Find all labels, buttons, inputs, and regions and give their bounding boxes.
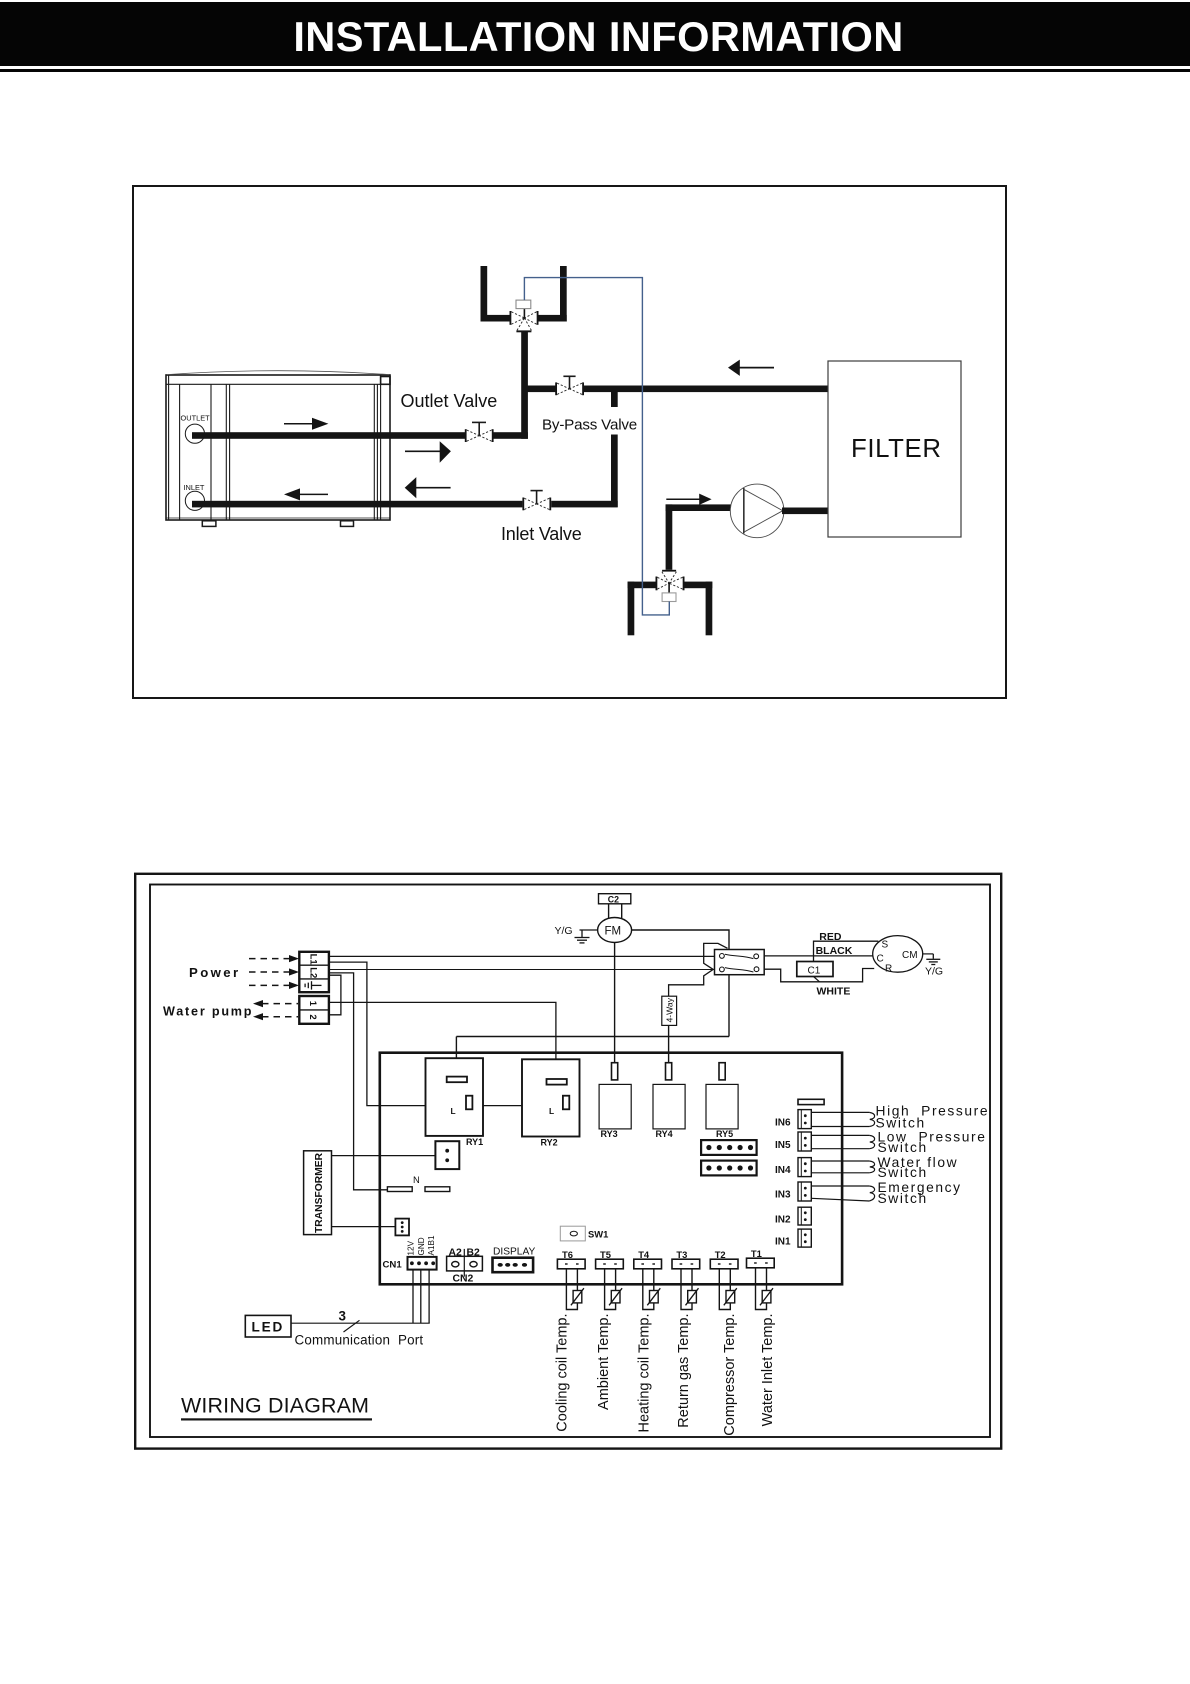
T2 sensor loop wires	[719, 1269, 730, 1310]
svg-text:12V: 12V	[407, 1240, 416, 1255]
RY1 L pin bar	[466, 1096, 472, 1110]
thermistor RT2	[724, 1288, 737, 1305]
svg-text:SW1: SW1	[588, 1228, 608, 1239]
svg-text:C1: C1	[808, 965, 821, 976]
svg-text:CN2: CN2	[453, 1273, 474, 1284]
inlet pipe	[192, 501, 523, 508]
wire L2 to contactor	[329, 969, 715, 971]
svg-text:2: 2	[307, 1014, 318, 1019]
INLET port circle	[185, 491, 204, 510]
svg-text:RED: RED	[819, 931, 842, 943]
top U pipe bottom right arm	[538, 315, 567, 322]
input pin strip	[798, 1099, 824, 1104]
earth terminal symbol	[305, 981, 321, 989]
T6 sensor loop wires	[566, 1269, 577, 1310]
pin header strip A below RY5	[701, 1140, 757, 1155]
diagram 1 border frame	[133, 186, 1006, 698]
svg-text:LED: LED	[252, 1320, 285, 1335]
heat pump unit feet	[202, 521, 353, 527]
svg-text:BLACK: BLACK	[816, 945, 853, 957]
wire L1 to contactor	[329, 955, 715, 957]
IN6 wires to switch	[811, 1112, 874, 1126]
svg-text:CN1: CN1	[383, 1259, 403, 1270]
T4 sensor loop wires	[643, 1269, 654, 1310]
svg-text:WIRING DIAGRAM: WIRING DIAGRAM	[181, 1394, 369, 1418]
contactor terminals	[720, 954, 759, 972]
T3 connector	[672, 1259, 700, 1269]
IN1 connector	[798, 1229, 811, 1247]
IN6 connector	[798, 1110, 811, 1129]
svg-text:Outlet Valve: Outlet Valve	[401, 391, 498, 411]
wire FM right to contactor top	[632, 930, 729, 950]
RED wire	[814, 941, 879, 961]
svg-text:S: S	[882, 940, 889, 951]
svg-text:Heating coil Temp.: Heating coil Temp.	[637, 1314, 653, 1433]
outlet pipe horizontal	[192, 432, 466, 439]
svg-text:IN6: IN6	[775, 1117, 791, 1128]
relay RY3 box	[599, 1084, 631, 1129]
wire transformer to 3pin connector	[332, 1226, 396, 1228]
header title	[0, 13, 1190, 61]
T1 connector	[747, 1258, 775, 1268]
wire contactor bottom to relay bus	[728, 975, 730, 1037]
wiring inner frame	[150, 885, 990, 1438]
BLACK wire	[764, 955, 873, 957]
svg-text:1: 1	[307, 1001, 318, 1007]
svg-text:FILTER: FILTER	[851, 435, 942, 463]
top U pipe left leg	[481, 266, 488, 322]
svg-text:IN1: IN1	[775, 1237, 791, 1248]
water pump dashed arrow 1	[253, 1000, 298, 1007]
IN5 wires to switch	[811, 1135, 874, 1148]
power dashed arrow L1	[249, 955, 299, 962]
svg-text:3: 3	[339, 1309, 346, 1324]
svg-text:Switch: Switch	[878, 1165, 928, 1180]
T3 sensor loop wires	[681, 1269, 692, 1310]
svg-text:L1: L1	[308, 954, 319, 966]
OUTLET port circle	[185, 424, 204, 443]
relay RY4 box	[653, 1084, 685, 1129]
relay RY1 box	[426, 1058, 484, 1136]
FILTER box	[828, 361, 961, 537]
svg-text:Inlet Valve: Inlet Valve	[501, 524, 582, 544]
outlet riser pipe	[521, 332, 528, 439]
wiring diagram	[134, 872, 1003, 1450]
T5 connector	[596, 1259, 624, 1269]
top U pipe right leg	[560, 266, 567, 322]
by-pass pipe right	[583, 386, 828, 393]
bottom bridge left leg	[628, 582, 635, 636]
thermistor RT3	[686, 1288, 699, 1305]
svg-text:TRANSFORMER: TRANSFORMER	[314, 1152, 325, 1233]
jumper wire to terminal 2	[329, 975, 341, 1015]
CN1 wire 2	[420, 1270, 422, 1324]
bypass-to-inlet drop pipe lower run	[611, 435, 618, 508]
water pump dashed arrow 2	[253, 1013, 298, 1020]
outlet pipe after valve	[492, 432, 528, 439]
N bar left	[387, 1187, 412, 1192]
svg-text:Cooling coil Temp.: Cooling coil Temp.	[555, 1314, 571, 1432]
capacitor C2 box	[599, 894, 631, 904]
svg-text:R: R	[885, 964, 892, 975]
IN3 connector	[798, 1182, 811, 1201]
RY1 coil pad	[447, 1077, 467, 1083]
svg-text:Switch: Switch	[876, 1116, 926, 1131]
svg-text:Communication Port: Communication Port	[295, 1333, 424, 1348]
wire FM bottom to RY3 pin	[614, 943, 616, 1063]
IN2 connector	[798, 1207, 811, 1225]
thermistor RT6	[571, 1288, 584, 1305]
svg-text:RY2: RY2	[541, 1137, 558, 1147]
N bar right	[425, 1187, 450, 1192]
title underline	[181, 1418, 372, 1420]
contactor contact blades	[725, 954, 754, 972]
IN4 wires to switch	[811, 1161, 874, 1173]
svg-text:By-Pass Valve: By-Pass Valve	[542, 417, 637, 434]
relay RY2 box	[522, 1059, 580, 1136]
IN5 connector	[798, 1132, 811, 1151]
switch SW1	[560, 1226, 585, 1241]
outlet valve V1	[465, 422, 494, 442]
svg-text:RY3: RY3	[601, 1129, 618, 1139]
fan motor FM	[598, 918, 632, 943]
header black bar	[0, 2, 1190, 66]
transformer box	[304, 1151, 332, 1235]
CN2 connector	[447, 1249, 483, 1277]
by-pass valve V2	[555, 376, 584, 395]
wire L1 branch to relay L pins	[329, 962, 563, 1106]
compressor motor CM	[873, 936, 923, 973]
flow arrow after outlet valve	[405, 441, 451, 463]
water pump P1	[730, 484, 784, 538]
pump discharge pipe	[782, 508, 828, 515]
RY5 pin	[719, 1063, 725, 1080]
thermistor RT5	[609, 1288, 622, 1305]
T1 sensor loop wires	[756, 1268, 767, 1310]
relay bus horizontal wire	[456, 1036, 729, 1038]
bottom bridge pipe right arm	[684, 582, 713, 589]
capillary blue control line	[524, 278, 669, 615]
svg-text:RY5: RY5	[716, 1129, 733, 1139]
wire terminal 1 to RY2	[329, 1002, 556, 1079]
bottom bridge right leg	[706, 582, 713, 636]
CN1 wire 1	[412, 1270, 414, 1324]
CN1 connector	[408, 1257, 437, 1270]
svg-text:OUTLET: OUTLET	[181, 414, 211, 423]
svg-text:Ambient Temp.: Ambient Temp.	[596, 1314, 612, 1410]
4-Way valve coil box	[662, 996, 677, 1025]
thermistor RT1	[760, 1288, 773, 1305]
svg-text:N: N	[413, 1174, 420, 1185]
svg-text:Compressor Temp.: Compressor Temp.	[722, 1314, 738, 1436]
WHITE wire	[764, 969, 874, 982]
svg-text:Y/G: Y/G	[555, 925, 573, 937]
wire relay bus to RY1	[455, 1037, 457, 1078]
flow arrow unit bottom	[284, 488, 328, 500]
capacitor C1 box	[797, 962, 833, 977]
svg-text:L2: L2	[308, 967, 319, 978]
T5 sensor loop wires	[605, 1269, 616, 1310]
CN1 wire 3	[428, 1270, 430, 1324]
svg-text:FM: FM	[605, 926, 622, 938]
svg-text:Y/G: Y/G	[925, 966, 943, 978]
power terminal block L1 L2 earth	[299, 952, 329, 992]
contactor KM box	[715, 950, 765, 975]
wiring outer frame	[135, 874, 1001, 1449]
IN4 connector	[798, 1158, 811, 1177]
wire CM to ground	[923, 953, 934, 955]
DISPLAY connector	[493, 1258, 534, 1273]
ground symbol at FM	[575, 930, 590, 943]
thermistor RT4	[647, 1288, 660, 1305]
svg-text:IN4: IN4	[775, 1165, 791, 1176]
3-way valve top V3	[510, 300, 539, 332]
svg-text:RY4: RY4	[656, 1129, 673, 1139]
svg-text:Return gas Temp.: Return gas Temp.	[676, 1314, 692, 1428]
wire C2 to FM right lead	[621, 904, 623, 920]
svg-text:Water pump: Water pump	[163, 1004, 253, 1018]
main PCB board box	[380, 1053, 842, 1285]
flow arrow pump suction	[666, 494, 711, 505]
inlet pipe right segment	[551, 501, 618, 508]
RY2 coil pad	[547, 1079, 567, 1085]
svg-text:GND: GND	[417, 1237, 426, 1255]
bypass-to-inlet drop pipe upper stub	[611, 390, 618, 407]
RY4 pin	[666, 1063, 672, 1080]
top U pipe bottom left arm	[481, 315, 511, 322]
svg-text:RY1: RY1	[466, 1137, 483, 1147]
water pump terminal block 1 2	[299, 996, 329, 1024]
svg-text:IN2: IN2	[775, 1215, 791, 1226]
svg-text:INLET: INLET	[184, 483, 205, 492]
wire transformer to 2pin connector	[332, 1155, 436, 1157]
C1 bottom lead	[814, 977, 820, 982]
3-way valve bottom V5	[656, 570, 685, 602]
flow arrow bypass to filter	[728, 360, 774, 376]
RY3 pin	[612, 1063, 618, 1080]
svg-text:Water Inlet Temp.: Water Inlet Temp.	[760, 1314, 776, 1427]
pump suction pipe horizontal	[666, 504, 732, 511]
svg-text:DISPLAY: DISPLAY	[493, 1247, 535, 1258]
header underline rule	[0, 69, 1190, 72]
power dashed arrow L2	[249, 968, 299, 975]
LED communication wire	[291, 1322, 430, 1324]
svg-text:C: C	[877, 954, 884, 965]
pump suction pipe riser	[666, 504, 673, 569]
3-wire slash mark	[344, 1320, 360, 1332]
svg-text:L: L	[451, 1106, 456, 1116]
svg-text:C2: C2	[608, 894, 619, 904]
LED box	[245, 1315, 291, 1337]
flow arrow before inlet valve	[405, 477, 451, 498]
svg-text:A1B1: A1B1	[427, 1235, 436, 1255]
inlet valve V4	[522, 491, 551, 511]
T2 connector	[710, 1259, 738, 1269]
2-pin connector J1	[435, 1141, 459, 1169]
power dashed arrow earth	[249, 982, 299, 989]
svg-text:WHITE: WHITE	[817, 986, 851, 998]
svg-text:Power: Power	[189, 965, 241, 980]
svg-text:CM: CM	[902, 950, 918, 961]
svg-text:IN3: IN3	[775, 1190, 791, 1201]
T6 connector	[557, 1259, 585, 1269]
svg-text:Switch: Switch	[878, 1140, 928, 1155]
wire 4-Way to RY4 pin	[668, 1025, 670, 1062]
wire Y/G to FM	[580, 929, 598, 931]
svg-text:L: L	[549, 1106, 554, 1116]
bottom bridge pipe left arm	[628, 582, 657, 589]
RY2 L pin bar	[563, 1096, 569, 1110]
pin header strip B below RY5	[701, 1161, 757, 1176]
piping diagram	[132, 185, 1007, 699]
svg-text:4-Way: 4-Way	[665, 997, 675, 1022]
T4 connector	[634, 1259, 662, 1269]
3-pin connector J2	[395, 1219, 409, 1236]
IN3 wires to switch	[811, 1186, 874, 1201]
wire C2 to FM left lead	[608, 904, 610, 920]
wire L2 branch to N bar	[329, 973, 388, 1190]
ground symbol at CM	[926, 954, 940, 965]
flow arrow unit top	[284, 418, 328, 430]
heat pump unit body	[166, 371, 390, 520]
svg-text:IN5: IN5	[775, 1140, 791, 1151]
contactor coil bracket	[669, 943, 728, 996]
svg-text:Switch: Switch	[878, 1191, 928, 1206]
relay RY5 box	[706, 1084, 738, 1129]
by-pass pipe left	[525, 386, 556, 393]
